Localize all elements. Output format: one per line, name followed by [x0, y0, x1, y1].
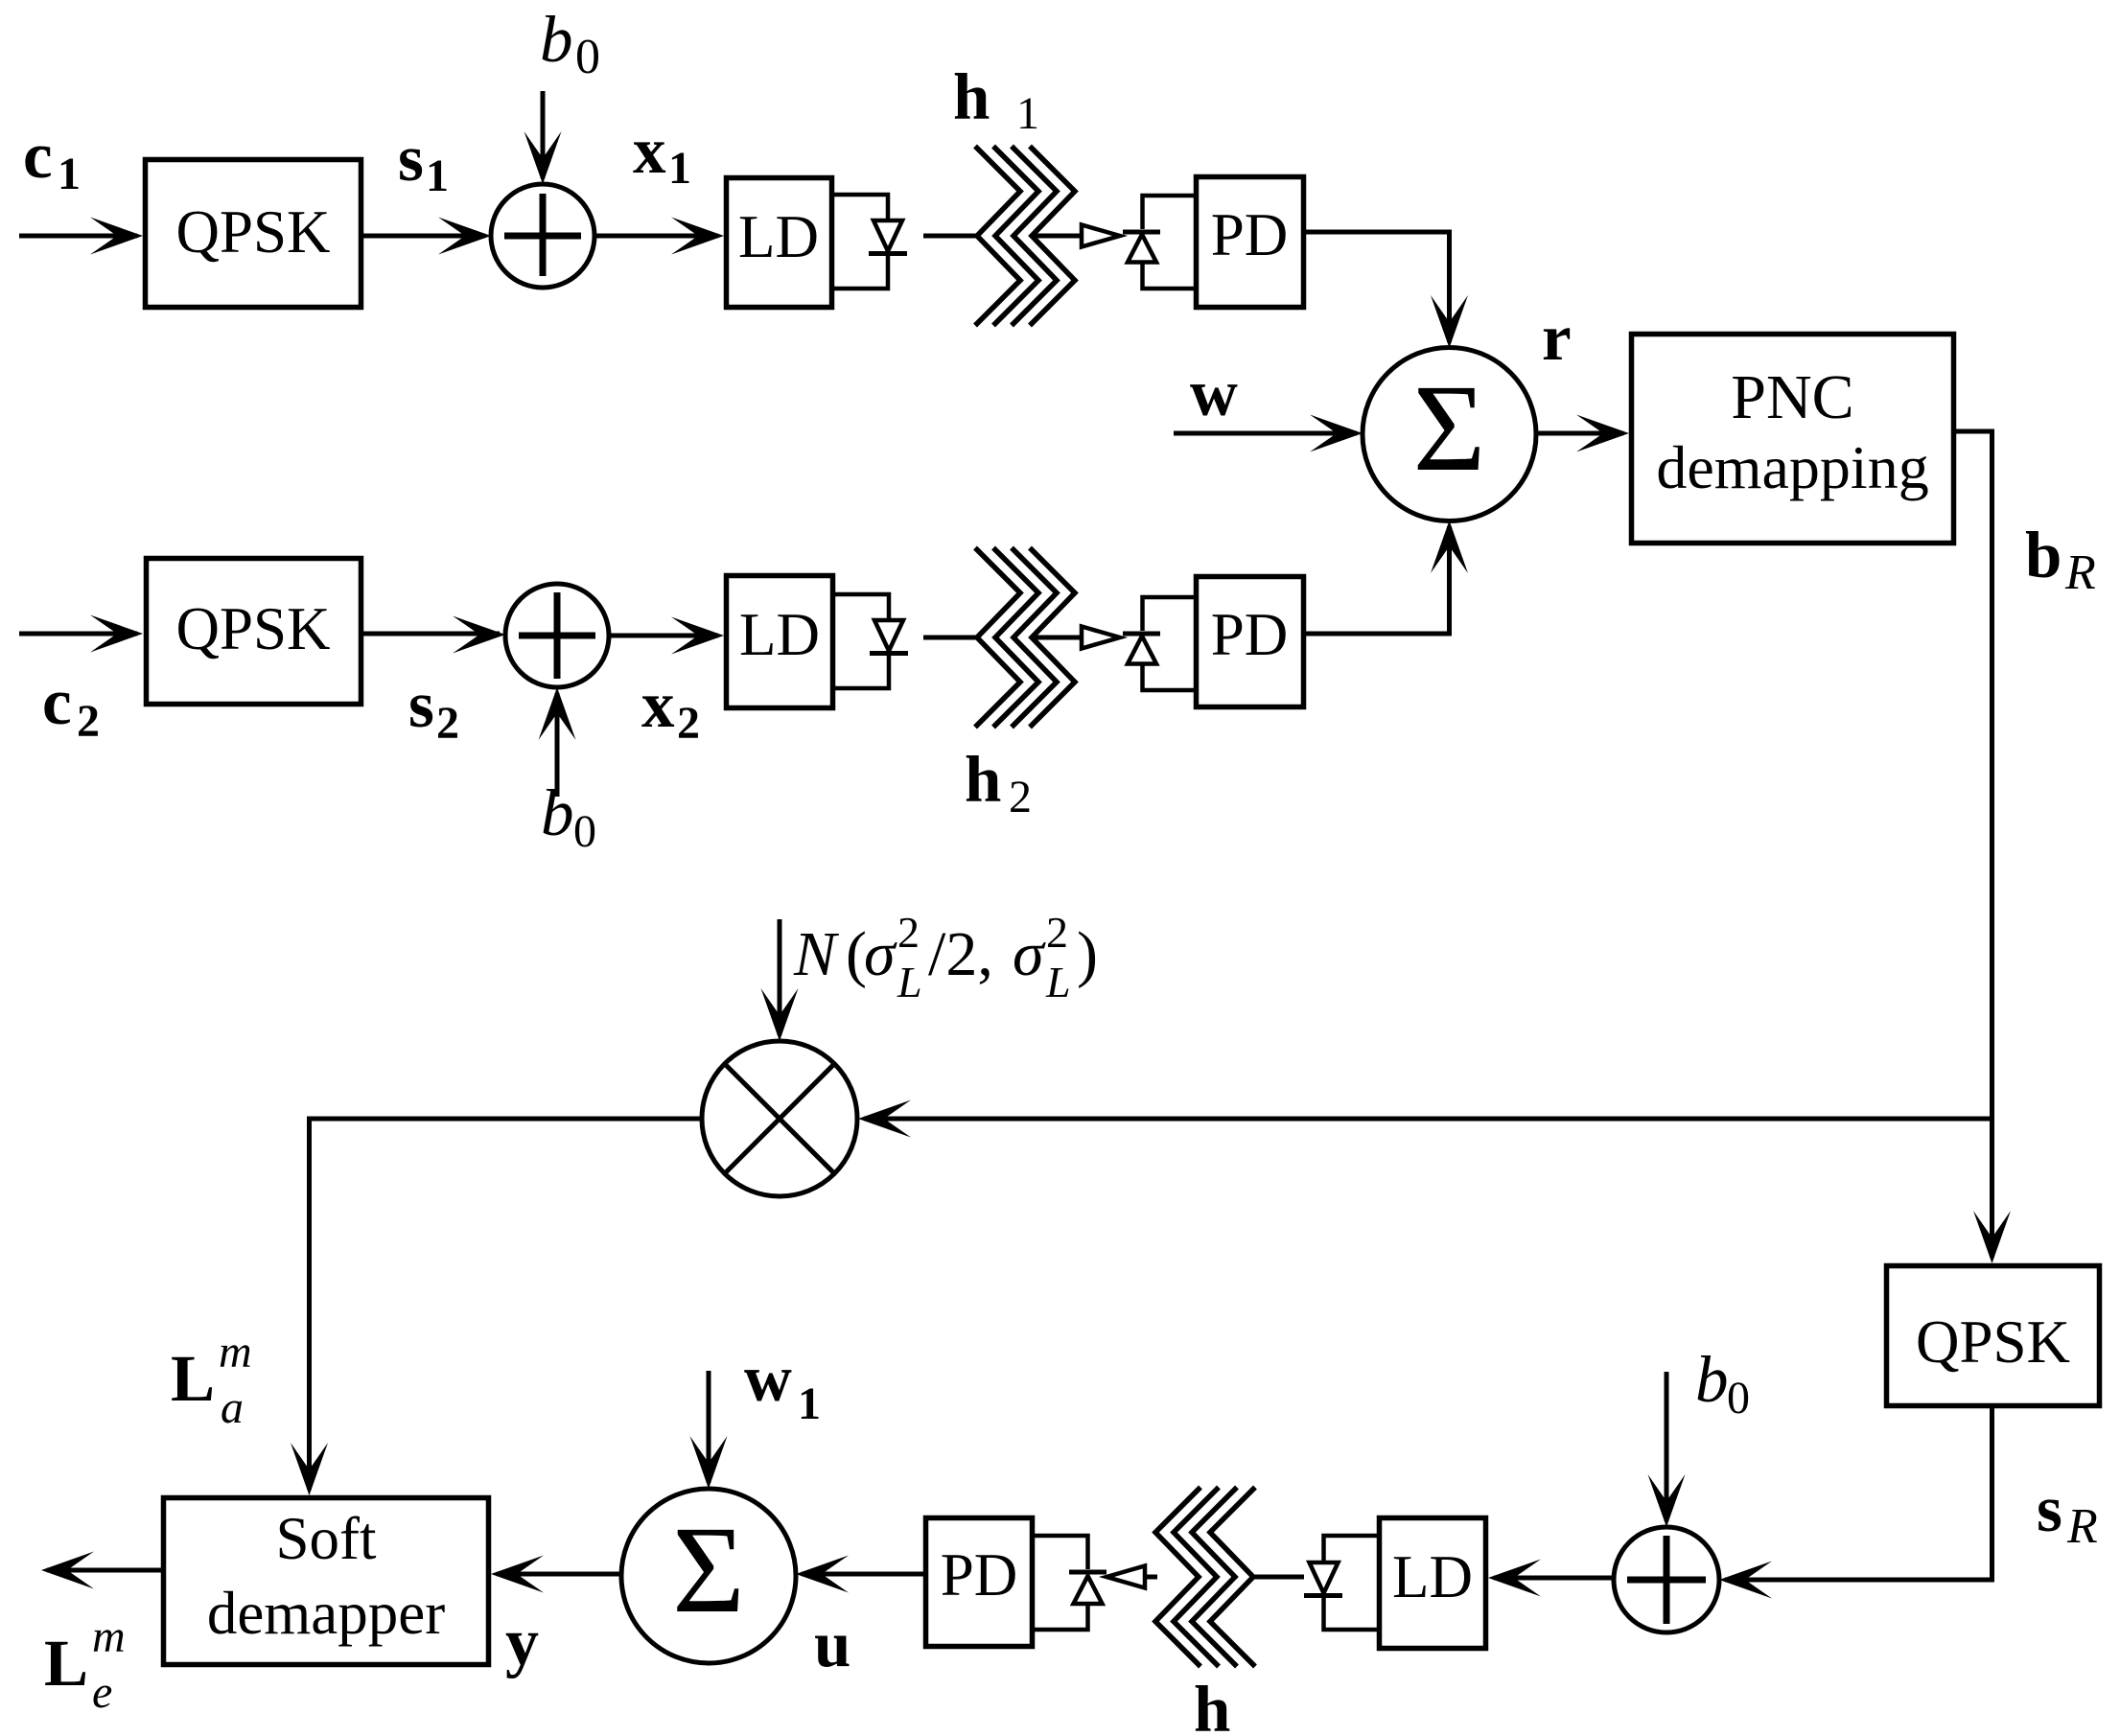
svg-text:): ): [1077, 919, 1098, 989]
node x2 label: [641, 668, 700, 749]
svg-text:R: R: [2064, 545, 2096, 600]
wire light into channel h: [1147, 1575, 1157, 1580]
svg-text:x: x: [641, 668, 675, 741]
svg-text:QPSK: QPSK: [175, 198, 330, 266]
laser diode LD U7 box: [1380, 1518, 1486, 1649]
svg-text:Σ: Σ: [672, 1501, 745, 1639]
wire c1 input: [19, 234, 137, 239]
svg-text:a: a: [221, 1382, 244, 1433]
LD U7 diode symbol D4: [1304, 1562, 1342, 1596]
svg-text:1: 1: [668, 143, 691, 194]
wire b0 into adder A3: [1665, 1372, 1669, 1521]
svg-text:w: w: [744, 1342, 792, 1415]
wire multiplier M1 to soft demapper: [310, 1119, 703, 1490]
svg-text:L: L: [171, 1342, 215, 1415]
node b0 label (top): [540, 3, 600, 84]
svg-text:u: u: [814, 1608, 850, 1680]
svg-text:2: 2: [436, 698, 459, 749]
arrowhead into PNC U4: [1576, 415, 1629, 452]
wire w1 into summer S2: [707, 1371, 711, 1483]
node w1 label: [744, 1342, 821, 1429]
svg-text:c: c: [23, 119, 53, 192]
wire x1: [594, 234, 718, 239]
arrowhead into soft demapper top: [291, 1443, 328, 1495]
svg-text:QPSK: QPSK: [1916, 1308, 2070, 1376]
laser diode LD U2 box: [727, 178, 832, 308]
node Le^m label: [44, 1611, 126, 1718]
arrowhead w into summer S1: [1310, 415, 1363, 452]
wire LD U2 to channel h1: [923, 234, 978, 239]
arrowhead into QPSK U9: [90, 615, 143, 653]
QPSK modulator U8 box: [1887, 1266, 2100, 1406]
arrowhead into summer S1 bottom: [1431, 521, 1468, 573]
arrowhead into adder A2: [453, 616, 505, 654]
wire PD U11 to summer S1 from below: [1306, 526, 1450, 634]
svg-text:2: 2: [77, 696, 100, 747]
channel h1 fading symbol: [975, 147, 1075, 326]
wire x2: [609, 634, 718, 638]
svg-text:h: h: [953, 60, 990, 133]
LD U2 output bracket: [834, 195, 888, 289]
summer S2 circle: [621, 1489, 796, 1663]
svg-text:L: L: [897, 958, 922, 1007]
arrowhead b0 into adder A1: [524, 131, 562, 184]
LD U10 output bracket: [835, 594, 889, 688]
wire s2: [363, 632, 500, 637]
svg-text:LD: LD: [739, 601, 820, 668]
arrowhead into LD U2: [671, 218, 724, 255]
svg-text:σ: σ: [864, 919, 897, 989]
arrowhead into summer S1 top: [1431, 295, 1468, 348]
PD U11 diode symbol D6: [1123, 634, 1160, 664]
PNC demapping U4 box: [1632, 335, 1954, 544]
node bR label: [2025, 519, 2096, 600]
svg-text:1: 1: [798, 1378, 821, 1429]
QPSK modulator U9 box: [147, 559, 361, 705]
svg-text:LD: LD: [1392, 1543, 1473, 1610]
soft demapper U5 label: [207, 1505, 445, 1647]
svg-text:σ: σ: [1013, 919, 1046, 989]
svg-text:s: s: [408, 668, 434, 741]
node h2 label: [965, 743, 1032, 822]
svg-text:y: y: [505, 1606, 539, 1679]
wire b0 into adder A1: [541, 91, 546, 178]
arrowhead into QPSK U8 top: [1973, 1211, 2011, 1263]
wire w into summer S1: [1174, 431, 1357, 436]
wire bR to multiplier M1: [864, 1117, 1992, 1122]
wire bR from PNC U4 down right side: [1956, 431, 1992, 1258]
svg-text:s: s: [2037, 1472, 2062, 1545]
arrowhead into adder A3 right: [1719, 1562, 1772, 1599]
PNC demapping U4 label: [1656, 362, 1928, 501]
svg-text:2: 2: [677, 698, 700, 749]
wire LD U10 to channel h2: [923, 636, 978, 640]
svg-text:0: 0: [573, 806, 596, 857]
svg-text:w: w: [1190, 357, 1238, 429]
PD U3 diode symbol D2: [1123, 232, 1160, 263]
svg-text:2: 2: [1009, 772, 1032, 822]
photodiode PD U3 box: [1197, 177, 1304, 308]
svg-text:m: m: [92, 1611, 126, 1662]
arrowhead N into multiplier M1: [761, 988, 799, 1041]
arrowhead into QPSK U1: [90, 218, 143, 255]
wire PD U3 to summer S1: [1306, 232, 1450, 342]
svg-text:QPSK: QPSK: [175, 595, 330, 662]
adder A1 circle (plus): [491, 184, 594, 288]
svg-text:1: 1: [426, 150, 449, 201]
wire c2 input: [19, 632, 137, 637]
wire channel h to LD U7: [1253, 1575, 1304, 1580]
svg-text:demapping: demapping: [1656, 433, 1928, 501]
svg-text:N: N: [793, 919, 840, 989]
wire PD U6 to summer S2: [802, 1572, 923, 1577]
wire channel h1 to PD U3: [1034, 234, 1083, 239]
channel h fading symbol: [1155, 1488, 1255, 1667]
node s2 label: [408, 668, 459, 749]
LD U7 output bracket: [1324, 1536, 1378, 1630]
wire summer S1 to PNC box: [1536, 431, 1623, 436]
svg-text:b: b: [2025, 519, 2062, 591]
svg-text:0: 0: [1727, 1373, 1750, 1424]
svg-text:r: r: [1542, 301, 1572, 374]
svg-text:1: 1: [1016, 88, 1039, 139]
arrowhead into soft demapper right: [491, 1556, 544, 1593]
svg-text:e: e: [92, 1667, 112, 1718]
svg-text:L: L: [1045, 958, 1071, 1007]
QPSK modulator U1 box: [146, 160, 361, 308]
svg-text:/2,: /2,: [928, 919, 993, 989]
arrowhead into summer S2 right: [796, 1556, 849, 1593]
laser diode LD U10 box: [727, 576, 833, 708]
svg-text:L: L: [44, 1627, 88, 1700]
node h1 label: [953, 60, 1039, 139]
PD U6 input bracket: [1035, 1536, 1088, 1630]
wire s1: [363, 234, 485, 239]
wire sR from QPSK U8 to adder A3: [1725, 1408, 1992, 1580]
photodiode PD U6 box: [926, 1518, 1033, 1647]
svg-text:Σ: Σ: [1413, 359, 1486, 498]
arrowhead into LD U7 right: [1488, 1560, 1541, 1597]
node b0 label (row2): [541, 776, 596, 857]
arrowhead into multiplier M1: [858, 1100, 911, 1138]
svg-text:h: h: [1194, 1673, 1230, 1736]
svg-text:demapper: demapper: [207, 1580, 445, 1647]
svg-text:s: s: [398, 122, 424, 195]
light beam arrow into PD U6: [1107, 1566, 1145, 1588]
summer S1 circle: [1363, 348, 1536, 521]
node s1 label: [398, 122, 449, 201]
svg-text:PD: PD: [1211, 201, 1289, 268]
wire N noise into multiplier M1: [778, 919, 782, 1035]
svg-text:Soft: Soft: [275, 1505, 377, 1572]
node b0 label (bottom): [1695, 1343, 1750, 1424]
PD U11 input bracket: [1143, 597, 1195, 690]
svg-text:b: b: [1695, 1343, 1729, 1416]
svg-text:PD: PD: [941, 1541, 1018, 1609]
LD U10 diode symbol D5: [870, 620, 908, 654]
wire summer S2 to soft demapper: [497, 1572, 621, 1577]
wire Le output: [47, 1568, 161, 1573]
svg-text:PD: PD: [1211, 601, 1289, 668]
svg-text:1: 1: [58, 149, 81, 199]
svg-text:LD: LD: [738, 203, 819, 270]
light beam arrow into PD U11: [1082, 627, 1120, 649]
svg-text:2: 2: [897, 908, 920, 957]
soft demapper U5 box: [164, 1498, 489, 1665]
node N noise label: [793, 908, 1098, 1007]
svg-text:2: 2: [1046, 908, 1068, 957]
svg-text:R: R: [2066, 1499, 2098, 1554]
arrowhead into adder A1: [438, 218, 491, 255]
svg-text:h: h: [965, 743, 1001, 816]
svg-text:0: 0: [575, 30, 600, 84]
light beam arrow into PD U3: [1082, 225, 1120, 247]
svg-text:c: c: [42, 665, 72, 738]
node La^m label: [171, 1327, 252, 1433]
photodiode PD U11 box: [1197, 577, 1304, 707]
LD U2 diode symbol D1: [869, 220, 907, 254]
node x1 label: [633, 114, 691, 194]
arrowhead w1 into summer S2: [690, 1436, 728, 1489]
node c1 label: [23, 119, 81, 199]
PD U3 input bracket: [1143, 196, 1195, 289]
node c2 label: [42, 665, 100, 747]
arrowhead into LD U10: [671, 617, 724, 655]
wire b0 into adder A2 from below: [555, 693, 560, 797]
PD U6 diode symbol D3: [1069, 1572, 1107, 1604]
svg-text:m: m: [219, 1327, 252, 1377]
wire adder A3 to LD U7: [1494, 1576, 1614, 1581]
svg-text:x: x: [633, 114, 666, 187]
svg-text:PNC: PNC: [1731, 362, 1853, 432]
channel h2 fading symbol: [975, 548, 1075, 728]
adder A2 circle (plus): [505, 584, 609, 687]
adder A3 circle (plus): [1614, 1527, 1719, 1632]
arrowhead Le output: [41, 1552, 94, 1589]
arrowhead b0 into adder A2: [539, 687, 576, 740]
wire channel h2 to PD U11: [1034, 636, 1083, 640]
multiplier M1 circle (times): [702, 1041, 857, 1196]
arrowhead b0 into adder A3: [1648, 1474, 1686, 1527]
svg-text:b: b: [540, 3, 573, 76]
node sR label: [2037, 1472, 2098, 1554]
